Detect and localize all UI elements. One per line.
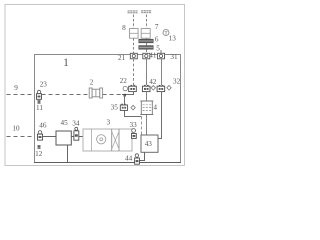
svg-text:2: 2	[90, 79, 94, 87]
top text label B	[141, 10, 151, 13]
svg-text:11: 11	[36, 104, 43, 112]
wire valve31 to valve32	[161, 59, 163, 85]
wire junction to valve22 leg	[122, 92, 134, 95]
wire valve41 to valve42	[146, 59, 148, 85]
border frame	[5, 5, 185, 166]
wire heater6 to heater5	[146, 43, 148, 46]
dosing box 45	[56, 131, 71, 145]
diamond fitting right of valve 35	[131, 105, 135, 110]
svg-text:13: 13	[169, 35, 177, 43]
wire down into box 43	[141, 117, 143, 136]
valve 34	[74, 127, 79, 140]
svg-text:46: 46	[39, 122, 47, 130]
wire tank7 to heater 6	[146, 38, 148, 39]
wire dashed tank8 to valve 21	[133, 38, 135, 51]
valve 46	[38, 131, 43, 141]
svg-text:43: 43	[145, 140, 153, 148]
sample port 12	[37, 145, 40, 148]
svg-text:7: 7	[155, 23, 159, 31]
valve 33	[132, 129, 137, 139]
thermometer T 13	[163, 30, 169, 37]
valve 41	[143, 53, 150, 59]
wire box43 drain	[139, 152, 144, 160]
heater bar 5	[139, 46, 153, 50]
inlet line 9 dashed	[7, 94, 35, 96]
pump valve 22	[129, 85, 137, 92]
junction node	[124, 94, 126, 97]
diamond fitting right of valve 42	[151, 86, 155, 91]
tank 7	[141, 29, 150, 39]
wire junction down to valve 35	[124, 95, 126, 105]
svg-text:31: 31	[170, 53, 178, 61]
biofilter unit 3	[83, 129, 132, 151]
svg-text:33: 33	[130, 121, 138, 129]
wire valve42 to tank 4	[146, 92, 148, 101]
svg-text:41: 41	[149, 51, 157, 59]
valve 31	[158, 50, 165, 59]
heater bar 6	[139, 39, 153, 43]
wire box45 bottom drain	[67, 145, 69, 163]
svg-text:21: 21	[118, 54, 126, 62]
svg-text:23: 23	[40, 80, 48, 88]
svg-text:12: 12	[35, 150, 43, 158]
tank 8	[130, 29, 139, 39]
diamond fitting right of valve 32	[167, 86, 171, 91]
wire box45 to valve34 to box3	[71, 136, 83, 138]
svg-text:22: 22	[120, 77, 128, 85]
svg-text:1: 1	[63, 57, 69, 69]
svg-text:45: 45	[61, 119, 69, 127]
wire valve46 to box45	[43, 136, 57, 138]
wire dashed feed to tank 7	[146, 15, 148, 29]
sample port 11	[37, 100, 40, 103]
inlet line 10 dashed	[7, 136, 35, 138]
line 9 dashed inside enclosure	[42, 94, 90, 96]
svg-text:35: 35	[111, 104, 119, 112]
filter 2	[89, 88, 102, 98]
pump valve 35	[120, 104, 127, 111]
wire heater5 to valve 41	[146, 49, 148, 52]
svg-text:42: 42	[149, 78, 157, 86]
svg-text:44: 44	[125, 154, 133, 162]
svg-text:3: 3	[107, 119, 111, 127]
valve 23	[37, 90, 42, 99]
wire tank4 to box43	[146, 115, 148, 136]
svg-text:6: 6	[155, 35, 159, 43]
valve 44	[135, 154, 140, 164]
svg-text:34: 34	[72, 120, 80, 128]
svg-text:10: 10	[12, 125, 20, 133]
bottom edge (darker)	[34, 162, 181, 164]
wire valve32 down	[158, 92, 161, 139]
svg-text:5: 5	[156, 44, 160, 52]
wire dashed filter2 to junction	[103, 94, 122, 96]
svg-text:8: 8	[122, 24, 126, 32]
top text label A	[128, 10, 138, 13]
wire dashed valve21 to valve22	[133, 59, 135, 85]
svg-text:4: 4	[153, 103, 157, 111]
packed column 4	[140, 101, 153, 115]
wire valve35 down and right	[125, 110, 142, 116]
svg-text:9: 9	[14, 84, 18, 92]
reactor enclosure 1	[35, 55, 181, 163]
svg-text:T: T	[164, 32, 167, 37]
collection box 43	[141, 135, 158, 152]
gauge circle near valve 22	[123, 86, 127, 90]
pump valve 42	[142, 85, 150, 92]
pump valve 32	[157, 85, 165, 92]
svg-text:32: 32	[173, 78, 181, 86]
valve 21	[130, 52, 137, 59]
wire dashed feed to tank 8	[133, 15, 135, 29]
